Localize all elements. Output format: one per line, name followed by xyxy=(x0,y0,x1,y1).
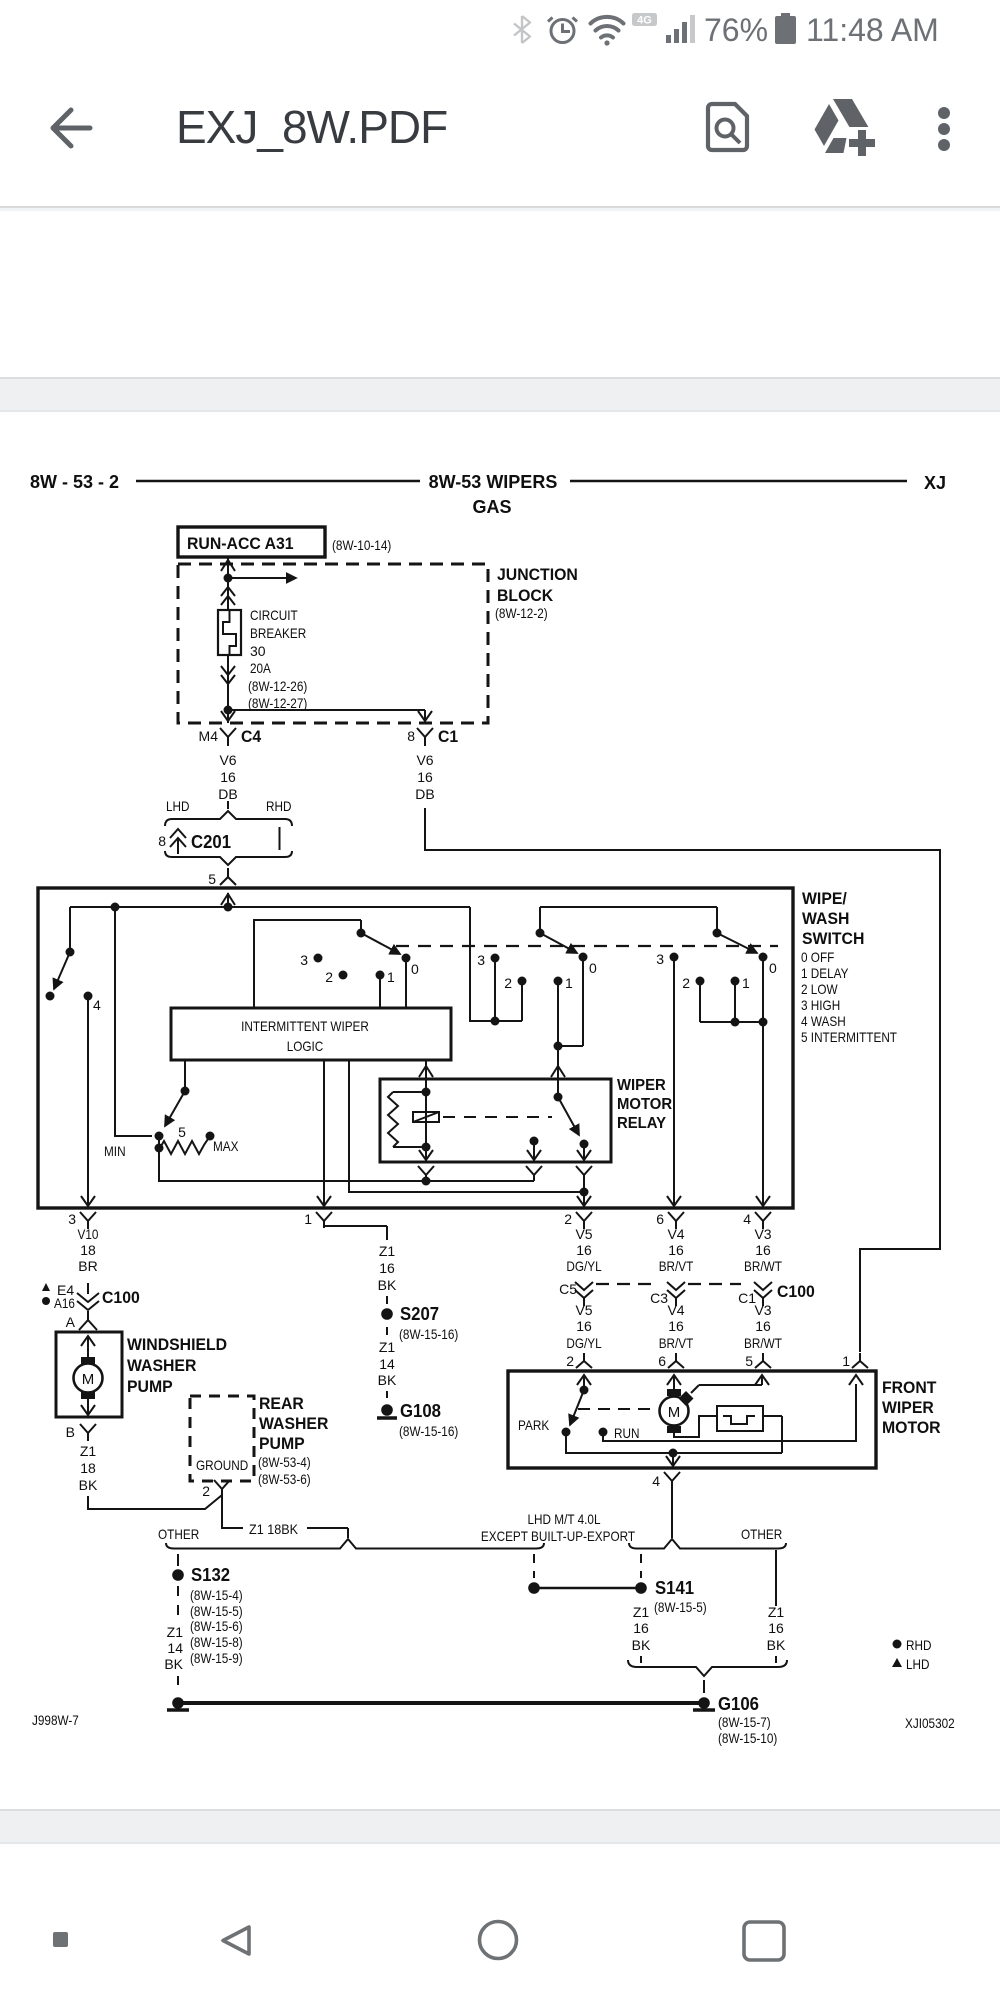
cam to common wire xyxy=(763,1416,782,1453)
C100 connector row C3 xyxy=(667,1282,685,1306)
MAX end dot xyxy=(206,1132,215,1141)
motor pin 5 connector xyxy=(755,1353,771,1368)
svg-text:Z1 18BK: Z1 18BK xyxy=(249,1521,299,1537)
C100 connector row C1 xyxy=(754,1282,772,1306)
svg-text:14: 14 xyxy=(167,1640,183,1656)
svg-text:DG/YL: DG/YL xyxy=(566,1335,601,1351)
svg-text:LOGIC: LOGIC xyxy=(287,1038,324,1054)
svg-text:5: 5 xyxy=(208,871,216,887)
svg-text:(8W-53-6): (8W-53-6) xyxy=(258,1471,311,1487)
wire contact1 to logic xyxy=(379,975,381,1008)
svg-text:16: 16 xyxy=(379,1260,395,1276)
svg-text:Z1: Z1 xyxy=(379,1243,396,1259)
node dot xyxy=(554,1042,563,1051)
logic output to relay coil xyxy=(425,1060,427,1079)
motor armature feed xyxy=(673,1375,675,1389)
right OTHER wire xyxy=(775,1550,777,1606)
motor pin 4 connector xyxy=(664,1472,680,1489)
motor brush top xyxy=(667,1389,681,1396)
svg-text:Z1: Z1 xyxy=(379,1339,396,1355)
fuse box RUN-ACC A31 xyxy=(178,527,325,557)
svg-text:16: 16 xyxy=(576,1318,592,1334)
svg-text:0: 0 xyxy=(769,960,777,976)
svg-text:GAS: GAS xyxy=(472,497,511,517)
arrow out of motor pin4 xyxy=(666,1456,680,1466)
double chevron up on breaker feed xyxy=(221,587,235,605)
dashed wire S132 to ground xyxy=(177,1586,179,1620)
connector C201 pin 8 symbol (LHD) xyxy=(170,829,186,854)
bank A contact 3 xyxy=(314,954,323,963)
svg-text:(8W-15-5): (8W-15-5) xyxy=(654,1599,707,1615)
logic output to exit 1 xyxy=(323,1060,325,1206)
svg-text:76%: 76% xyxy=(704,12,768,48)
4G badge xyxy=(632,13,657,26)
svg-text:BR/VT: BR/VT xyxy=(659,1335,694,1351)
svg-text:REAR: REAR xyxy=(259,1394,304,1413)
svg-text:BR/WT: BR/WT xyxy=(744,1258,782,1274)
relay pin symbols below xyxy=(418,1166,434,1181)
svg-text:(8W-15-7): (8W-15-7) xyxy=(718,1714,771,1730)
exit arrows at box bottom xyxy=(81,1196,95,1206)
run contact dot xyxy=(599,1428,608,1437)
windshield washer pump box xyxy=(56,1332,122,1417)
run wire to pin 1 xyxy=(603,1384,856,1441)
dashed stub xyxy=(386,1296,388,1304)
svg-text:PUMP: PUMP xyxy=(259,1434,305,1453)
RHD branch stub xyxy=(279,827,281,850)
svg-text:2: 2 xyxy=(504,975,512,991)
node dot xyxy=(111,903,120,912)
svg-text:WASH: WASH xyxy=(802,909,849,928)
right harness brace xyxy=(629,1539,786,1549)
svg-text:MOTOR: MOTOR xyxy=(882,1418,941,1437)
svg-text:Z1: Z1 xyxy=(80,1443,97,1459)
wire join to relay xyxy=(557,1046,559,1097)
node dot below A31 xyxy=(224,574,233,583)
svg-text:1: 1 xyxy=(565,975,573,991)
search-in-document icon xyxy=(708,104,747,150)
bank B contact 2 xyxy=(518,977,527,986)
svg-text:1: 1 xyxy=(842,1353,850,1369)
svg-text:18: 18 xyxy=(80,1242,96,1258)
bank A contact 1 xyxy=(376,971,385,980)
wire to delay resistor xyxy=(115,907,152,1136)
C201 top bracket xyxy=(165,811,292,826)
nav: back triangle xyxy=(223,1927,249,1954)
svg-text:M: M xyxy=(668,1404,681,1421)
motor brush bottom xyxy=(667,1426,681,1433)
splice link wire xyxy=(534,1587,641,1590)
connector pin 4 below box xyxy=(755,1212,771,1229)
bank A contact 0 xyxy=(402,954,411,963)
svg-text:V5: V5 xyxy=(575,1226,592,1242)
svg-text:WASHER: WASHER xyxy=(259,1414,328,1433)
motor pin 2 connector xyxy=(576,1353,592,1368)
C201 bottom bracket xyxy=(165,851,292,865)
node dot xyxy=(731,1018,740,1027)
svg-text:DB: DB xyxy=(415,786,434,802)
nav: screenshot chip xyxy=(53,1932,68,1947)
svg-text:DB: DB xyxy=(218,786,237,802)
svg-text:30: 30 xyxy=(250,643,266,659)
node dot xyxy=(491,1017,500,1026)
dashed stub xyxy=(386,1327,388,1335)
double chevron down below breaker xyxy=(221,666,235,684)
park cam dog xyxy=(679,1391,694,1406)
header rule right xyxy=(570,480,907,483)
feed bus wire xyxy=(70,893,470,907)
svg-text:4G: 4G xyxy=(637,15,652,27)
svg-text:EXJ_8W.PDF: EXJ_8W.PDF xyxy=(176,101,447,153)
svg-text:V3: V3 xyxy=(754,1302,771,1318)
signal strength bars xyxy=(666,15,695,43)
RHD marker row E4 xyxy=(42,1283,50,1291)
svg-text:(8W-53-4): (8W-53-4) xyxy=(258,1454,311,1470)
svg-text:0: 0 xyxy=(589,960,597,976)
bluetooth icon xyxy=(514,16,530,43)
connector C4 xyxy=(220,728,236,746)
svg-text:MOTOR: MOTOR xyxy=(617,1096,673,1113)
svg-text:8: 8 xyxy=(407,728,415,744)
svg-text:2: 2 xyxy=(325,969,333,985)
app bar back arrow xyxy=(53,110,90,146)
svg-text:0: 0 xyxy=(411,961,419,977)
svg-text:(8W-10-14): (8W-10-14) xyxy=(332,537,391,553)
svg-text:SWITCH: SWITCH xyxy=(802,929,864,948)
svg-text:8W-53 WIPERS: 8W-53 WIPERS xyxy=(429,472,558,492)
relay coil element xyxy=(413,1112,439,1122)
svg-text:C4: C4 xyxy=(241,727,262,746)
LHD marker row A16 xyxy=(42,1297,50,1305)
arrow into relay coil xyxy=(419,1066,433,1077)
dashed stub to bottom brace right xyxy=(775,1656,777,1663)
svg-text:BR/WT: BR/WT xyxy=(744,1335,782,1351)
relay shunt resistor xyxy=(393,1092,426,1147)
svg-text:MAX: MAX xyxy=(213,1138,239,1154)
svg-text:PUMP: PUMP xyxy=(127,1377,173,1396)
svg-text:16: 16 xyxy=(755,1242,771,1258)
bank C contact 1 xyxy=(731,977,740,986)
dashed stub xyxy=(386,1391,388,1398)
svg-text:V5: V5 xyxy=(575,1302,592,1318)
relay contact left xyxy=(530,1137,539,1146)
junction block (dashed) xyxy=(178,564,488,723)
C100 dashed connector line xyxy=(596,1283,741,1285)
intermittent wiper logic box xyxy=(171,1008,451,1060)
C100 connector row C5 xyxy=(575,1282,593,1306)
splice S207 xyxy=(381,1308,393,1320)
svg-text:WIPE/: WIPE/ xyxy=(802,889,847,908)
pivot dot xyxy=(66,948,75,957)
svg-text:BR: BR xyxy=(78,1258,97,1274)
page gap band bottom xyxy=(0,1809,1000,1844)
svg-text:BK: BK xyxy=(632,1637,651,1653)
bank C pivot dot xyxy=(713,929,722,938)
motor pin 6 connector xyxy=(668,1353,684,1368)
svg-text:WIPER: WIPER xyxy=(882,1398,934,1417)
motor pin 1 connector xyxy=(852,1353,868,1368)
pump ground wire xyxy=(88,1495,222,1509)
pin4 ground wire xyxy=(671,1489,673,1538)
svg-text:V10: V10 xyxy=(78,1226,99,1242)
wifi icon xyxy=(591,17,624,38)
ground wire to splice bracket xyxy=(222,1495,243,1528)
legend LHD marker xyxy=(892,1658,902,1667)
wire C3 to exit 6 xyxy=(673,957,675,1206)
delay resistor MIN-MAX xyxy=(160,1136,210,1154)
svg-text:JUNCTION: JUNCTION xyxy=(497,565,578,584)
bank B feed from bus xyxy=(470,907,522,1021)
relay coil wire xyxy=(425,1079,427,1160)
svg-text:5 INTERMITTENT: 5 INTERMITTENT xyxy=(801,1029,897,1045)
bank A pivot dot xyxy=(357,929,366,938)
bank C contact 3 xyxy=(670,953,679,962)
connector pin 2 below box xyxy=(576,1212,592,1229)
svg-text:BREAKER: BREAKER xyxy=(250,625,306,641)
svg-text:Z1: Z1 xyxy=(633,1604,650,1620)
bank B contact 0 xyxy=(579,953,588,962)
svg-text:XJI05302: XJI05302 xyxy=(905,1715,955,1731)
relay armature blade xyxy=(558,1097,579,1135)
ground node S132 side xyxy=(172,1697,184,1709)
bank B contact 1 xyxy=(554,977,563,986)
relay contact right xyxy=(580,1140,589,1149)
svg-text:2 LOW: 2 LOW xyxy=(801,981,838,997)
ground G106 xyxy=(698,1697,710,1709)
connector pin 6 below box xyxy=(668,1212,684,1229)
park switch feed wire xyxy=(583,1375,585,1390)
legend RHD marker xyxy=(893,1640,902,1649)
svg-text:6: 6 xyxy=(658,1353,666,1369)
svg-text:(8W-15-9): (8W-15-9) xyxy=(190,1650,243,1666)
connector pin 3 below box xyxy=(80,1212,96,1229)
svg-text:3: 3 xyxy=(477,952,485,968)
svg-text:3 HIGH: 3 HIGH xyxy=(801,997,840,1013)
svg-text:BK: BK xyxy=(79,1477,98,1493)
svg-text:LHD: LHD xyxy=(166,798,190,814)
svg-text:RHD: RHD xyxy=(906,1637,932,1653)
bank B blade xyxy=(540,933,577,953)
arrow out of block at C1 xyxy=(418,711,432,721)
svg-text:(8W-15-16): (8W-15-16) xyxy=(399,1326,458,1342)
svg-text:2: 2 xyxy=(564,1211,572,1227)
svg-text:B: B xyxy=(66,1424,75,1440)
feed arrow to other circuits xyxy=(228,577,296,579)
svg-text:Z1: Z1 xyxy=(768,1604,785,1620)
node dot xyxy=(224,903,233,912)
svg-text:EXCEPT BUILT-UP-EXPORT: EXCEPT BUILT-UP-EXPORT xyxy=(481,1528,636,1544)
switch bank A pivot feed xyxy=(254,920,361,1008)
svg-text:A16: A16 xyxy=(54,1295,75,1311)
svg-text:BR/VT: BR/VT xyxy=(659,1258,694,1274)
dashed stub to bottom brace xyxy=(640,1656,642,1663)
page gap band top xyxy=(0,377,1000,412)
svg-text:M: M xyxy=(82,1371,95,1388)
pump brush top xyxy=(81,1357,95,1364)
svg-text:14: 14 xyxy=(379,1356,395,1372)
svg-text:2: 2 xyxy=(682,975,690,991)
svg-text:OTHER: OTHER xyxy=(741,1526,782,1542)
left wash switch pivot wire xyxy=(69,907,71,952)
svg-text:BK: BK xyxy=(767,1637,786,1653)
wire contact0 to logic xyxy=(405,958,407,1008)
entry arrow pin5 inside box xyxy=(221,894,235,905)
circuit breaker symbol xyxy=(218,610,241,655)
pot left contact dot xyxy=(155,1132,164,1141)
svg-text:LHD M/T 4.0L: LHD M/T 4.0L xyxy=(528,1511,601,1527)
svg-text:(8W-15-10): (8W-15-10) xyxy=(718,1730,777,1746)
svg-text:BLOCK: BLOCK xyxy=(497,586,554,605)
svg-text:3: 3 xyxy=(68,1211,76,1227)
svg-text:V6: V6 xyxy=(219,752,236,768)
dashed drop right to S141 xyxy=(640,1554,642,1578)
ground G108 xyxy=(381,1404,393,1416)
splice S132 xyxy=(172,1569,184,1581)
motor return to cam xyxy=(674,1416,717,1437)
arrow into motor pin1 xyxy=(849,1375,863,1385)
arrow up to A31 xyxy=(221,560,235,571)
node dot relay coil return xyxy=(422,1177,431,1186)
svg-text:G108: G108 xyxy=(400,1401,441,1421)
arrow into motor pin5 xyxy=(755,1375,769,1385)
svg-text:A: A xyxy=(66,1314,76,1330)
wire pot to return bus xyxy=(159,1148,534,1181)
washer pump motor xyxy=(74,1364,103,1393)
svg-text:1 DELAY: 1 DELAY xyxy=(801,965,849,981)
svg-text:2: 2 xyxy=(566,1353,574,1369)
svg-text:FRONT: FRONT xyxy=(882,1378,937,1397)
svg-text:(8W-15-8): (8W-15-8) xyxy=(190,1634,243,1650)
wire C join to exit 4 xyxy=(762,1022,764,1206)
svg-text:16: 16 xyxy=(417,769,433,785)
wash contact dot xyxy=(46,992,55,1001)
svg-text:(8W-15-4): (8W-15-4) xyxy=(190,1587,243,1603)
wire contact 4 to exit 3 xyxy=(87,996,89,1206)
svg-text:WINDSHIELD: WINDSHIELD xyxy=(127,1335,227,1354)
arrow into motor pin6 xyxy=(667,1375,681,1385)
svg-text:S207: S207 xyxy=(400,1304,439,1324)
svg-text:C100: C100 xyxy=(102,1288,140,1307)
svg-text:16: 16 xyxy=(220,769,236,785)
node dot xyxy=(759,1018,768,1027)
svg-text:5: 5 xyxy=(745,1353,753,1369)
rear washer pump box (dashed) xyxy=(190,1396,254,1481)
svg-text:Z1: Z1 xyxy=(167,1624,184,1640)
pot blade pivot dot xyxy=(181,1087,190,1096)
dashed drop to S132 xyxy=(177,1554,179,1566)
park switch cam xyxy=(717,1406,763,1431)
common node dot xyxy=(669,1449,678,1458)
splice S141 xyxy=(635,1582,647,1594)
pump feed wire xyxy=(87,1336,89,1357)
svg-text:V4: V4 xyxy=(667,1302,684,1318)
svg-text:3: 3 xyxy=(656,951,664,967)
header rule left xyxy=(136,480,420,483)
svg-text:2: 2 xyxy=(202,1483,210,1499)
svg-text:GROUND: GROUND xyxy=(196,1457,248,1473)
svg-text:INTERMITTENT WIPER: INTERMITTENT WIPER xyxy=(241,1018,369,1034)
svg-text:0 OFF: 0 OFF xyxy=(801,949,834,965)
node dot at breaker output xyxy=(224,706,233,715)
svg-text:RUN: RUN xyxy=(614,1425,640,1441)
dashed stub into C201 bracket xyxy=(227,801,229,809)
svg-text:WIPER: WIPER xyxy=(617,1077,666,1094)
pot end link xyxy=(158,1136,160,1148)
front wiper motor M xyxy=(660,1397,689,1426)
svg-text:MIN: MIN xyxy=(104,1143,126,1159)
svg-text:(8W-15-6): (8W-15-6) xyxy=(190,1618,243,1634)
connector C100 pin (washer feed) xyxy=(77,1283,99,1310)
wash output contact 4 xyxy=(84,992,93,1001)
nav: recents square xyxy=(744,1922,784,1960)
node dot xyxy=(580,1188,589,1197)
bank C contact 2 xyxy=(696,977,705,986)
svg-text:BK: BK xyxy=(378,1372,397,1388)
svg-text:C5: C5 xyxy=(559,1281,577,1297)
pump brush bottom xyxy=(81,1392,95,1399)
bank C contact join xyxy=(700,957,763,1022)
connector pin 5 into switch xyxy=(220,868,236,885)
svg-text:6: 6 xyxy=(656,1211,664,1227)
svg-text:(8W-12-27): (8W-12-27) xyxy=(248,695,307,711)
wiper motor relay box xyxy=(380,1079,611,1162)
cam dog wire to pin5 xyxy=(691,1375,762,1393)
dashed drop left to S141 xyxy=(533,1554,535,1578)
park pivot dot xyxy=(580,1386,589,1395)
relay armature dot xyxy=(554,1093,563,1102)
ground bus wire xyxy=(183,1701,699,1705)
wire C1 to front wiper motor pin 1 (right side run) xyxy=(425,808,940,1352)
svg-text:RHD: RHD xyxy=(266,798,292,814)
arrow out of block at C4 xyxy=(221,711,235,721)
pot left end dot xyxy=(155,1144,164,1153)
svg-text:DG/YL: DG/YL xyxy=(566,1258,601,1274)
nav: home circle xyxy=(480,1922,517,1959)
svg-text:V6: V6 xyxy=(416,752,433,768)
svg-text:(8W-15-16): (8W-15-16) xyxy=(399,1423,458,1439)
svg-text:CIRCUIT: CIRCUIT xyxy=(250,607,298,623)
alarm clock icon xyxy=(548,18,577,43)
svg-text:18: 18 xyxy=(80,1460,96,1476)
bank B pivot link xyxy=(540,907,717,933)
svg-text:4 WASH: 4 WASH xyxy=(801,1013,846,1029)
wire B2 to feed xyxy=(521,981,523,1021)
app bar divider xyxy=(0,206,1000,208)
logic output to exit 2 link xyxy=(349,1060,584,1192)
svg-text:BK: BK xyxy=(164,1656,183,1672)
overflow menu dots xyxy=(938,107,950,119)
svg-text:4: 4 xyxy=(743,1211,751,1227)
svg-text:G106: G106 xyxy=(718,1694,759,1714)
svg-text:(8W-12-2): (8W-12-2) xyxy=(495,605,548,621)
svg-text:V4: V4 xyxy=(667,1226,684,1242)
svg-text:XJ: XJ xyxy=(924,473,946,493)
wash switch blade xyxy=(54,952,70,989)
connector C1 xyxy=(417,728,433,746)
motor common to pin4 xyxy=(672,1453,674,1466)
park switch blade xyxy=(570,1390,584,1425)
pump return wire xyxy=(87,1399,89,1415)
park cam dashed link xyxy=(578,1408,656,1410)
logic to delay pot wire xyxy=(184,1060,186,1091)
relay actuating dashed link xyxy=(443,1116,552,1118)
arrow into pump xyxy=(81,1336,95,1346)
svg-text:5: 5 xyxy=(178,1124,186,1140)
wire from A31 down into junction block xyxy=(227,557,229,610)
svg-text:1: 1 xyxy=(742,975,750,991)
svg-text:C3: C3 xyxy=(650,1290,668,1306)
svg-text:J998W-7: J998W-7 xyxy=(32,1712,79,1728)
